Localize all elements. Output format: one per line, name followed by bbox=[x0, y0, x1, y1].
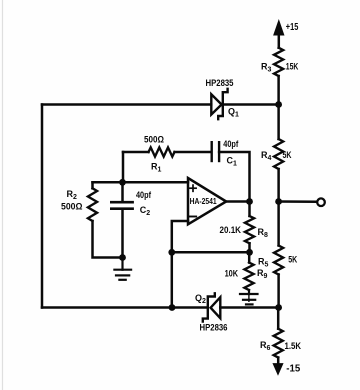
wire R2 bottom to ground node bbox=[93, 221, 123, 258]
resistor R4 bbox=[274, 139, 283, 169]
output node junction dot bbox=[275, 198, 282, 205]
capacitor C2 bbox=[111, 182, 132, 257]
wire node B to R6 bbox=[277, 308, 280, 329]
inverting input wire bbox=[172, 221, 188, 252]
wire R1 branch riser bbox=[122, 152, 125, 182]
node R8/R9 junction dot bbox=[246, 249, 253, 256]
svg-text:500Ω: 500Ω bbox=[61, 202, 83, 212]
svg-text:10K: 10K bbox=[225, 269, 239, 279]
wire riser to R1 bbox=[123, 151, 149, 154]
wire R5 to node B bbox=[277, 275, 280, 308]
resistor R5 bbox=[274, 246, 283, 275]
wire output node to R8 bbox=[248, 202, 251, 217]
node R2/C2 ground junction dot bbox=[119, 254, 126, 261]
resistor R8 bbox=[245, 216, 254, 243]
svg-text:-15: -15 bbox=[286, 364, 300, 375]
wire output node to terminal bbox=[279, 200, 317, 203]
op-amp U1 HA-2541 bbox=[188, 178, 226, 224]
svg-text:40pf: 40pf bbox=[136, 190, 152, 200]
svg-text:HA-2541: HA-2541 bbox=[190, 196, 217, 206]
wire feedback node down to diode row bbox=[171, 252, 174, 307]
svg-text:+15: +15 bbox=[286, 22, 299, 33]
wire R3 to node A bbox=[277, 76, 280, 105]
resistor R2 bbox=[88, 188, 97, 221]
wire feedback node to R8/R9 node bbox=[172, 251, 250, 254]
resistor R1 bbox=[149, 147, 175, 156]
wire to Q2 cathode bbox=[172, 306, 208, 309]
wire node A to R4 bbox=[277, 105, 280, 140]
non-inverting input wire bbox=[93, 181, 189, 184]
wire R8 to node bbox=[248, 243, 251, 252]
node B junction dot bbox=[275, 304, 282, 311]
svg-text:15K: 15K bbox=[286, 62, 299, 72]
node A junction dot bbox=[275, 101, 282, 108]
wire R1 to C1 bbox=[175, 151, 211, 154]
resistor R6 bbox=[274, 329, 283, 358]
capacitor C1 bbox=[212, 142, 219, 161]
svg-text:20.1K: 20.1K bbox=[220, 225, 242, 235]
bottom feedback wire bbox=[42, 306, 172, 309]
node plus-input junction dot bbox=[119, 179, 126, 186]
output terminal bbox=[317, 198, 325, 206]
ground (under R9) bbox=[240, 290, 258, 304]
scan edge artifact bbox=[2, 0, 4, 390]
wire R4 to output node bbox=[277, 169, 280, 202]
resistor R3 bbox=[274, 48, 283, 76]
node op-amp output junction dot bbox=[246, 198, 253, 205]
svg-text:HP2835: HP2835 bbox=[206, 78, 234, 88]
op-amp minus input marking bbox=[189, 216, 196, 218]
wire node to R9 bbox=[248, 252, 251, 262]
svg-text:40pf: 40pf bbox=[223, 139, 239, 149]
wire op-amp output to C1 node bbox=[226, 200, 249, 203]
svg-text:5K: 5K bbox=[283, 150, 292, 160]
svg-text:1.5K: 1.5K bbox=[285, 341, 302, 351]
op-amp plus input marking bbox=[190, 185, 196, 191]
diode Q1 (Schottky) bbox=[211, 89, 227, 119]
wire plus input to R2 bbox=[91, 182, 94, 188]
wire Q1 cathode to node A bbox=[225, 103, 279, 106]
left feedback wire vertical bbox=[41, 105, 44, 308]
ground (left, under C2) bbox=[114, 258, 131, 280]
node inverting feedback junction dot bbox=[168, 249, 175, 256]
diode Q2 (Schottky) bbox=[203, 293, 221, 321]
wire C1 to output node bbox=[219, 152, 249, 202]
svg-text:500Ω: 500Ω bbox=[144, 134, 164, 144]
svg-text:HP2836: HP2836 bbox=[200, 323, 228, 333]
node at bottom feedback junction bbox=[169, 304, 176, 311]
wire Q1 anode to left bbox=[42, 103, 211, 106]
resistor R9 bbox=[244, 263, 253, 291]
svg-text:5K: 5K bbox=[288, 255, 297, 265]
+15 supply arrow bbox=[274, 21, 284, 48]
wire Q2 anode to node B bbox=[220, 306, 278, 309]
-15 supply arrow bbox=[273, 358, 283, 375]
wire output node to R5 bbox=[277, 202, 280, 246]
